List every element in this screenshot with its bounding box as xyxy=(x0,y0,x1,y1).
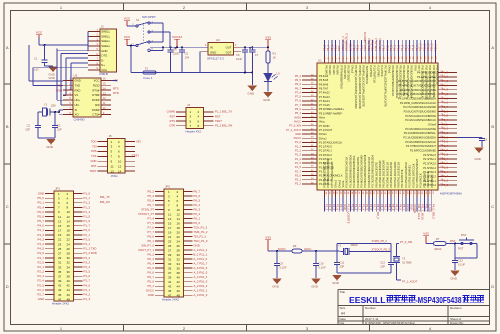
svg-text:4MHZ: 4MHZ xyxy=(351,243,358,247)
svg-text:P4_2: P4_2 xyxy=(84,293,91,297)
svg-text:P3.1/UCB0SIMO/UCB0SDA: P3.1/UCB0SIMO/UCB0SDA xyxy=(348,155,352,188)
svg-text:P2.5/TA2.2: P2.5/TA2.2 xyxy=(423,153,436,157)
svg-text:P2_7: P2_7 xyxy=(442,144,449,148)
svg-text:28: 28 xyxy=(177,248,181,252)
svg-text:V33: V33 xyxy=(423,232,429,236)
svg-text:P2.6/TA2.1/RTCCLK: P2.6/TA2.1/RTCCLK xyxy=(411,163,415,187)
svg-text:P4_3: P4_3 xyxy=(442,88,449,92)
svg-text:RST: RST xyxy=(337,45,341,51)
svg-text:SW DPDT: SW DPDT xyxy=(142,15,156,19)
svg-text:B_1 P11_1: B_1 P11_1 xyxy=(194,253,208,257)
svg-text:P6_3: P6_3 xyxy=(147,257,154,261)
svg-text:XT2OUT_P7: XT2OUT_P7 xyxy=(138,212,154,216)
svg-text:30: 30 xyxy=(67,256,71,260)
svg-text:A_0 P11_0: A_0 P11_0 xyxy=(194,257,208,261)
svg-text:P6_2: P6_2 xyxy=(194,212,201,216)
svg-text:30: 30 xyxy=(177,253,181,257)
svg-text:P8.0/TA0.0/UCB1STE: P8.0/TA0.0/UCB1STE xyxy=(374,162,378,188)
svg-text:P6.7/A7: P6.7/A7 xyxy=(319,86,329,90)
svg-text:P4_4: P4_4 xyxy=(442,83,449,87)
svg-text:P6_5: P6_5 xyxy=(194,199,201,203)
svg-text:TMS_P1_2: TMS_P1_2 xyxy=(194,230,208,234)
svg-text:P5_1: P5_1 xyxy=(37,201,44,205)
svg-text:P10.3/UCB3CLK/UCA3STE: P10.3/UCB3CLK/UCA3STE xyxy=(432,66,436,98)
svg-text:P8.6/TA1.1/UCB1CLK: P8.6/TA1.1/UCB1CLK xyxy=(397,162,401,188)
svg-text:P1_0: P1_0 xyxy=(295,140,302,144)
svg-text:P6_1: P6_1 xyxy=(330,44,334,51)
svg-text:GND: GND xyxy=(38,192,44,196)
svg-text:27: 27 xyxy=(58,251,62,255)
svg-text:VCC33: VCC33 xyxy=(172,35,182,39)
svg-text:P3_2: P3_2 xyxy=(84,256,91,260)
svg-text:TDI_P1_1: TDI_P1_1 xyxy=(371,39,375,51)
svg-text:P5_1: P5_1 xyxy=(147,284,154,288)
svg-text:P9.1/UCB2SIMO/UCB2SDA: P9.1/UCB2SIMO/UCB2SDA xyxy=(395,66,399,99)
svg-text:17: 17 xyxy=(58,229,62,233)
svg-text:DVCC: DVCC xyxy=(278,247,286,251)
svg-text:DVss2: DVss2 xyxy=(337,179,341,187)
svg-text:SHELL: SHELL xyxy=(101,30,110,34)
svg-text:0.1UF: 0.1UF xyxy=(280,265,287,269)
svg-text:TXD: TXD xyxy=(75,83,81,87)
svg-text:P6_4: P6_4 xyxy=(295,74,302,78)
svg-text:15: 15 xyxy=(58,224,62,228)
svg-text:P3.6/UCA0TXD/UCA0SIMO: P3.6/UCA0TXD/UCA0SIMO xyxy=(404,109,436,113)
svg-text:P3_0: P3_0 xyxy=(84,237,91,241)
svg-text:P4_0: P4_0 xyxy=(442,101,449,105)
svg-text:12: 12 xyxy=(118,164,122,168)
svg-text:P4.0/TB0.0: P4.0/TB0.0 xyxy=(430,174,434,188)
svg-text:C3: C3 xyxy=(57,124,61,128)
svg-text:VCC: VCC xyxy=(124,17,131,21)
svg-text:P3_4: P3_4 xyxy=(84,265,91,269)
svg-text:104: 104 xyxy=(185,55,190,59)
svg-text:TEST: TEST xyxy=(215,119,222,123)
svg-text:A_2 P10_2: A_2 P10_2 xyxy=(194,284,208,288)
svg-text:P2_4: P2_4 xyxy=(37,279,44,283)
svg-text:GND: GND xyxy=(46,145,54,149)
svg-text:P7.7/A15: P7.7/A15 xyxy=(319,103,330,107)
svg-text:28: 28 xyxy=(67,251,71,255)
svg-text:P8.4/TA0.4/UCA1TXD: P8.4/TA0.4/UCA1TXD xyxy=(389,162,393,188)
svg-text:P3.3/UCB0CLK/UCA0STE: P3.3/UCB0CLK/UCA0STE xyxy=(356,157,360,188)
svg-text:C: C xyxy=(6,204,9,209)
svg-text:43: 43 xyxy=(58,288,62,292)
svg-text:Fuse 1: Fuse 1 xyxy=(144,76,153,80)
svg-text:35: 35 xyxy=(168,266,172,270)
svg-text:P4.0/PM_UCB1STE/UCA1CLK: P4.0/PM_UCB1STE/UCA1CLK xyxy=(400,101,436,105)
svg-text:P1.6/TA0CLK/UCA0TXD: P1.6/TA0CLK/UCA0TXD xyxy=(326,159,330,188)
svg-text:A_4 P10_4: A_4 P10_4 xyxy=(194,275,208,279)
svg-text:P4_5: P4_5 xyxy=(37,247,44,251)
svg-text:P11.2/SMCLK: P11.2/SMCLK xyxy=(426,171,430,188)
svg-text:P9_2: P9_2 xyxy=(396,44,400,51)
svg-text:C11: C11 xyxy=(340,261,345,265)
svg-text:38: 38 xyxy=(67,274,71,278)
svg-text:P6.6/A6: P6.6/A6 xyxy=(319,82,329,86)
svg-text:P9_6: P9_6 xyxy=(411,44,415,51)
svg-text:XT2IN_P5_2: XT2IN_P5_2 xyxy=(372,239,388,243)
svg-text:P6_6: P6_6 xyxy=(147,271,154,275)
svg-text:Header 24X2: Header 24X2 xyxy=(52,302,69,306)
svg-text:GND: GND xyxy=(210,51,216,55)
svg-text:AVSS: AVSS xyxy=(294,115,301,119)
svg-text:P5_7: P5_7 xyxy=(382,44,386,51)
svg-text:D:\MSP430\..\MSP430F5438.SchDo: D:\MSP430\..\MSP430F5438.SchDoc xyxy=(365,321,416,325)
svg-text:P2_0: P2_0 xyxy=(84,228,91,232)
svg-text:46: 46 xyxy=(177,289,181,293)
svg-text:P1.7/TA1.0/UCA0RXD: P1.7/TA1.0/UCA0RXD xyxy=(330,161,334,187)
svg-text:P1.1/TA0.0: P1.1/TA0.0 xyxy=(319,145,332,149)
svg-text:24: 24 xyxy=(177,239,181,243)
svg-text:A_2 P11_2: A_2 P11_2 xyxy=(194,248,208,252)
svg-text:P1_1 BSL_TX: P1_1 BSL_TX xyxy=(215,110,232,114)
svg-text:23: 23 xyxy=(58,242,62,246)
svg-text:P3_7: P3_7 xyxy=(84,279,91,283)
svg-text:A_3 P10_3: A_3 P10_3 xyxy=(194,280,208,284)
svg-text:P9_1: P9_1 xyxy=(393,44,397,51)
svg-text:27: 27 xyxy=(168,248,172,252)
svg-text:2200: 2200 xyxy=(173,51,179,55)
svg-text:P7_0_XIN: P7_0_XIN xyxy=(400,240,412,244)
svg-text:RTT/NMI/SBWTDIO: RTT/NMI/SBWTDIO xyxy=(339,66,343,89)
svg-text:P9.7: P9.7 xyxy=(417,66,421,72)
svg-text:22: 22 xyxy=(67,238,71,242)
svg-text:DSR#: DSR# xyxy=(92,108,100,112)
svg-text:P9.5/UCA2RXD/UCA2SOMI: P9.5/UCA2RXD/UCA2SOMI xyxy=(410,66,414,99)
svg-text:EESKILL: EESKILL xyxy=(349,296,386,305)
svg-text:P6.5/A5: P6.5/A5 xyxy=(319,78,329,82)
svg-text:V33: V33 xyxy=(265,36,271,40)
svg-text:GND: GND xyxy=(101,49,107,53)
svg-text:P6.1/A1: P6.1/A1 xyxy=(332,66,336,76)
svg-text:TDO_P1_0: TDO_P1_0 xyxy=(367,37,371,51)
svg-text:D: D xyxy=(6,284,9,289)
svg-text:P1_3: P1_3 xyxy=(442,174,449,178)
svg-text:DVCC: DVCC xyxy=(348,44,352,51)
svg-text:P6.2/A2: P6.2/A2 xyxy=(328,66,332,76)
svg-text:P10.1/UCB3SIMO/UCB3SDA: P10.1/UCB3SIMO/UCB3SDA xyxy=(424,66,428,100)
svg-text:P2.6/RTCCLK/DMAE0: P2.6/RTCCLK/DMAE0 xyxy=(410,148,437,152)
svg-text:OUT: OUT xyxy=(226,46,232,50)
svg-text:C5: C5 xyxy=(185,52,189,56)
svg-text:P1_1 TXD: P1_1 TXD xyxy=(84,247,97,251)
svg-text:GND: GND xyxy=(194,244,200,248)
svg-text:14: 14 xyxy=(177,217,181,221)
svg-text:P9_4: P9_4 xyxy=(404,44,408,51)
svg-text:36: 36 xyxy=(67,270,71,274)
svg-text:R1: R1 xyxy=(273,52,277,56)
svg-text:CH340: CH340 xyxy=(167,110,176,114)
svg-text:P5_4: P5_4 xyxy=(37,205,44,209)
svg-text:PJ.2/TMS: PJ.2/TMS xyxy=(376,66,380,78)
svg-text:GND: GND xyxy=(91,159,97,163)
svg-text:OUT: OUT xyxy=(226,51,232,55)
svg-text:P1_5: P1_5 xyxy=(442,166,449,170)
svg-text:P3_3: P3_3 xyxy=(442,127,449,131)
svg-text:18: 18 xyxy=(67,229,71,233)
svg-text:C10: C10 xyxy=(319,262,324,266)
svg-text:P3_1: P3_1 xyxy=(442,135,449,139)
svg-text:AVCC: AVCC xyxy=(304,247,311,251)
svg-text:P4_2: P4_2 xyxy=(442,92,449,96)
svg-text:P9_0: P9_0 xyxy=(389,44,393,51)
svg-text:P1_6: P1_6 xyxy=(84,219,91,223)
svg-text:R232: R232 xyxy=(93,83,100,87)
svg-text:AVcc: AVcc xyxy=(319,120,326,124)
svg-text:GND: GND xyxy=(450,276,458,280)
svg-text:34: 34 xyxy=(177,262,181,266)
svg-text:45: 45 xyxy=(168,289,172,293)
svg-text:P1_5: P1_5 xyxy=(295,161,302,165)
svg-text:P5.5/PM_UCA1RXD/PM_UCA1SOMI: P5.5/PM_UCA1RXD/PM_UCA1SOMI xyxy=(358,66,362,110)
svg-text:XOUT_P7_1: XOUT_P7_1 xyxy=(138,248,154,252)
svg-text:P6_0: P6_0 xyxy=(334,44,338,51)
svg-text:P3.2/UCB0SOMI/UCB0SCL: P3.2/UCB0SOMI/UCB0SCL xyxy=(404,131,437,135)
svg-text:44: 44 xyxy=(67,288,71,292)
svg-text:Header 24X2: Header 24X2 xyxy=(162,298,179,302)
svg-text:XT2IN_P5_2: XT2IN_P5_2 xyxy=(341,36,345,51)
svg-text:CH340G: CH340G xyxy=(74,117,86,121)
svg-text:P4_7: P4_7 xyxy=(37,256,44,260)
svg-text:0.1UF: 0.1UF xyxy=(319,265,326,269)
svg-text:P2_6: P2_6 xyxy=(442,148,449,152)
svg-text:26: 26 xyxy=(67,247,71,251)
svg-text:J5: J5 xyxy=(109,134,112,138)
svg-text:File: File xyxy=(340,321,345,325)
svg-text:P8.7/UCB1STE: P8.7/UCB1STE xyxy=(400,169,404,187)
svg-text:P6_7: P6_7 xyxy=(194,190,201,194)
svg-text:P1_2: P1_2 xyxy=(442,179,449,183)
svg-text:P3.5/UCA0CLK/UCB0STE: P3.5/UCA0CLK/UCB0STE xyxy=(405,114,436,118)
svg-text:TMS: TMS xyxy=(91,149,97,153)
svg-text:P5.6/PM_UCA1CLK/PM_UCB1STE: P5.6/PM_UCA1CLK/PM_UCB1STE xyxy=(362,66,366,108)
svg-text:20: 20 xyxy=(67,233,71,237)
svg-text:P6_0: P6_0 xyxy=(147,235,154,239)
svg-text:P3_1: P3_1 xyxy=(84,242,91,246)
svg-text:GND: GND xyxy=(263,98,271,102)
svg-text:RI#: RI# xyxy=(95,103,100,107)
svg-text:38: 38 xyxy=(177,271,181,275)
svg-text:GND: GND xyxy=(442,122,448,126)
svg-text:P4_6: P4_6 xyxy=(442,75,449,79)
svg-text:JP1: JP1 xyxy=(55,187,60,191)
svg-text:TDO_P1_0: TDO_P1_0 xyxy=(194,239,208,243)
svg-text:P1_0: P1_0 xyxy=(84,192,91,196)
svg-text:RTS#: RTS# xyxy=(92,88,100,92)
svg-text:21: 21 xyxy=(168,235,172,239)
svg-text:XI: XI xyxy=(75,108,78,112)
svg-text:P4_0: P4_0 xyxy=(37,224,44,228)
svg-text:TEST: TEST xyxy=(132,153,139,157)
svg-text:A_7 P10_7: A_7 P10_7 xyxy=(194,262,208,266)
svg-text:P1_5: P1_5 xyxy=(84,214,91,218)
svg-text:P4_0: P4_0 xyxy=(84,283,91,287)
svg-text:PJ.0/TDO: PJ.0/TDO xyxy=(369,66,373,77)
svg-text:RST: RST xyxy=(91,164,97,168)
svg-text:C: C xyxy=(491,204,494,209)
svg-text:P2_3: P2_3 xyxy=(442,161,449,165)
svg-text:P6_4: P6_4 xyxy=(147,262,154,266)
svg-text:DVss3: DVss3 xyxy=(387,66,391,74)
svg-text:P6_1: P6_1 xyxy=(147,239,154,243)
svg-text:P3.7/UCB1SIMO/UCB1SDA: P3.7/UCB1SIMO/UCB1SDA xyxy=(371,155,375,188)
svg-text:OTG: OTG xyxy=(101,54,107,58)
svg-text:P5_1: P5_1 xyxy=(295,111,302,115)
svg-text:P7_4: P7_4 xyxy=(295,90,302,94)
svg-text:TMS_P1_2: TMS_P1_2 xyxy=(374,37,378,51)
svg-text:P5.3/XT2OUT: P5.3/XT2OUT xyxy=(347,66,351,83)
svg-text:P6_3: P6_3 xyxy=(322,44,326,51)
svg-text:1K: 1K xyxy=(273,56,276,60)
svg-text:P5_7: P5_7 xyxy=(147,203,154,207)
svg-text:13: 13 xyxy=(111,169,115,173)
svg-text:P5_5: P5_5 xyxy=(37,210,44,214)
svg-text:TDI: TDI xyxy=(92,144,97,148)
svg-text:P1_3: P1_3 xyxy=(295,153,302,157)
svg-text:P10_2: P10_2 xyxy=(426,43,430,51)
svg-text:Revision: Revision xyxy=(450,306,462,310)
svg-text:TCK: TCK xyxy=(91,154,97,158)
svg-text:Y3: Y3 xyxy=(402,257,406,261)
svg-text:RXD: RXD xyxy=(56,88,62,92)
svg-text:DTR#: DTR# xyxy=(92,93,100,97)
svg-text:P5.0/VREF+/VeREF+: P5.0/VREF+/VeREF+ xyxy=(319,107,344,111)
svg-text:DTR: DTR xyxy=(113,91,119,95)
svg-text:P9.4/UCA2TXD/UCA2SIMO: P9.4/UCA2TXD/UCA2SIMO xyxy=(406,66,410,98)
svg-text:UD-: UD- xyxy=(75,103,80,107)
svg-text:IN: IN xyxy=(210,46,213,50)
svg-text:31: 31 xyxy=(58,261,62,265)
svg-text:P10_3: P10_3 xyxy=(430,43,434,51)
svg-text:26: 26 xyxy=(177,244,181,248)
svg-text:39: 39 xyxy=(168,275,172,279)
svg-text:P1.5/TA0.4: P1.5/TA0.4 xyxy=(423,166,436,170)
svg-text:P10.2/UCB3SOMI/UCB3SCL: P10.2/UCB3SOMI/UCB3SCL xyxy=(428,66,432,100)
svg-text:Y2: Y2 xyxy=(338,243,342,247)
svg-text:29: 29 xyxy=(58,256,62,260)
svg-text:GND: GND xyxy=(385,45,389,51)
svg-text:P9.6: P9.6 xyxy=(413,66,417,72)
svg-text:D: D xyxy=(491,284,494,289)
svg-text:GND: GND xyxy=(248,91,256,95)
svg-text:P3.3/UCB0CLK/UCA0STE: P3.3/UCB0CLK/UCA0STE xyxy=(405,127,436,131)
svg-text:P6.0/A0: P6.0/A0 xyxy=(336,66,340,76)
svg-text:P6_5: P6_5 xyxy=(295,78,302,82)
svg-text:P10.0/UCB3STE/UCA3CLK: P10.0/UCB3STE/UCA3CLK xyxy=(421,66,425,98)
svg-text:14: 14 xyxy=(118,169,122,173)
svg-text:40: 40 xyxy=(67,279,71,283)
svg-text:TXD: TXD xyxy=(56,84,62,88)
svg-text:A_0 P10_0: A_0 P10_0 xyxy=(194,293,208,297)
svg-text:P6_4: P6_4 xyxy=(194,203,201,207)
svg-text:P1_1: P1_1 xyxy=(295,144,302,148)
svg-text:P4_1: P4_1 xyxy=(442,96,449,100)
svg-text:U3: U3 xyxy=(74,74,78,78)
svg-text:XIN_P7_0: XIN_P7_0 xyxy=(141,244,154,248)
svg-text:C13: C13 xyxy=(458,259,463,263)
svg-text:DVcc1: DVcc1 xyxy=(319,136,327,140)
svg-text:P3.0/UCB0STE/UCA0CLK: P3.0/UCB0STE/UCA0CLK xyxy=(345,157,349,188)
svg-text:DVss4: DVss4 xyxy=(428,122,436,126)
svg-text:RST: RST xyxy=(450,239,456,243)
svg-text:B: B xyxy=(491,124,494,129)
svg-text:C7: C7 xyxy=(255,53,259,57)
svg-text:P10_0: P10_0 xyxy=(419,43,423,51)
svg-text:C1: C1 xyxy=(34,57,38,61)
svg-text:P1.2/TA0.1: P1.2/TA0.1 xyxy=(319,149,332,153)
svg-text:Number: Number xyxy=(365,306,376,310)
svg-text:B: B xyxy=(6,124,9,129)
svg-text:43: 43 xyxy=(168,284,172,288)
svg-text:11: 11 xyxy=(168,212,171,216)
svg-text:P2.7/TBOUTH/SVMOUT: P2.7/TBOUTH/SVMOUT xyxy=(415,159,419,188)
svg-text:P8.1/TA0.1/UCB1SIMO: P8.1/TA0.1/UCB1SIMO xyxy=(378,160,382,187)
svg-text:MSP430F5438A: MSP430F5438A xyxy=(440,192,462,196)
svg-text:A_6 P10_6: A_6 P10_6 xyxy=(194,266,208,270)
svg-text:P5_3: P5_3 xyxy=(147,194,154,198)
svg-text:22P: 22P xyxy=(25,127,30,131)
svg-text:22P: 22P xyxy=(380,264,385,268)
svg-text:P3_5: P3_5 xyxy=(442,114,449,118)
svg-text:C2: C2 xyxy=(27,124,31,128)
svg-text:P3.1/UCB0SIMO/UCB0SDA: P3.1/UCB0SIMO/UCB0SDA xyxy=(403,135,436,139)
svg-text:29: 29 xyxy=(168,253,172,257)
svg-text:GND: GND xyxy=(49,76,55,80)
svg-text:14: 14 xyxy=(67,219,71,223)
svg-text:AVss: AVss xyxy=(319,116,326,120)
svg-text:44: 44 xyxy=(177,284,181,288)
svg-text:P9_3: P9_3 xyxy=(400,44,404,51)
svg-text:P3_4: P3_4 xyxy=(442,118,449,122)
svg-text:P5_4: P5_4 xyxy=(352,44,356,51)
svg-text:17: 17 xyxy=(168,226,172,230)
svg-text:P2_1: P2_1 xyxy=(84,233,91,237)
svg-text:RST: RST xyxy=(170,114,176,118)
svg-text:PJ.3/TCK: PJ.3/TCK xyxy=(380,66,384,77)
svg-text:GND: GND xyxy=(148,293,154,297)
svg-text:TDI_P1_1: TDI_P1_1 xyxy=(194,235,207,239)
svg-text:47: 47 xyxy=(168,293,172,297)
svg-text:P7_6: P7_6 xyxy=(147,226,154,230)
svg-text:41: 41 xyxy=(58,284,62,288)
svg-text:25: 25 xyxy=(58,247,62,251)
svg-text:23P: 23P xyxy=(340,264,345,268)
svg-text:C9: C9 xyxy=(280,262,284,266)
svg-text:36: 36 xyxy=(177,266,181,270)
svg-text:XT2OUT_P5_3: XT2OUT_P5_3 xyxy=(372,248,391,252)
svg-text:37: 37 xyxy=(168,271,172,275)
svg-text:P8.3/TA0.3/UCB1CLK: P8.3/TA0.3/UCB1CLK xyxy=(385,162,389,188)
svg-text:P9_5: P9_5 xyxy=(408,44,412,51)
svg-text:P4_1: P4_1 xyxy=(37,228,44,232)
svg-text:P5_0: P5_0 xyxy=(147,280,154,284)
svg-text:33: 33 xyxy=(58,265,62,269)
svg-text:12: 12 xyxy=(67,215,71,219)
svg-text:VCC: VCC xyxy=(94,79,100,83)
svg-text:P1_1: P1_1 xyxy=(84,196,91,200)
svg-text:P5.4/PM_UCA1TXD/PM_UCA1SIMO: P5.4/PM_UCA1TXD/PM_UCA1SIMO xyxy=(354,66,358,109)
svg-text:P6_6: P6_6 xyxy=(194,194,201,198)
svg-text:P2_1: P2_1 xyxy=(295,178,302,182)
svg-text:P6_7: P6_7 xyxy=(295,86,302,90)
svg-text:A_5 P10_5: A_5 P10_5 xyxy=(194,271,208,275)
svg-text:P2_2 BSL_RX: P2_2 BSL_RX xyxy=(215,124,233,128)
svg-text:R6: R6 xyxy=(293,244,297,248)
svg-text:R7: R7 xyxy=(436,237,440,241)
svg-text:P3.7/UCA0RXD/UCA0SOMI: P3.7/UCA0RXD/UCA0SOMI xyxy=(403,105,436,109)
svg-text:CTS#: CTS# xyxy=(92,113,100,117)
